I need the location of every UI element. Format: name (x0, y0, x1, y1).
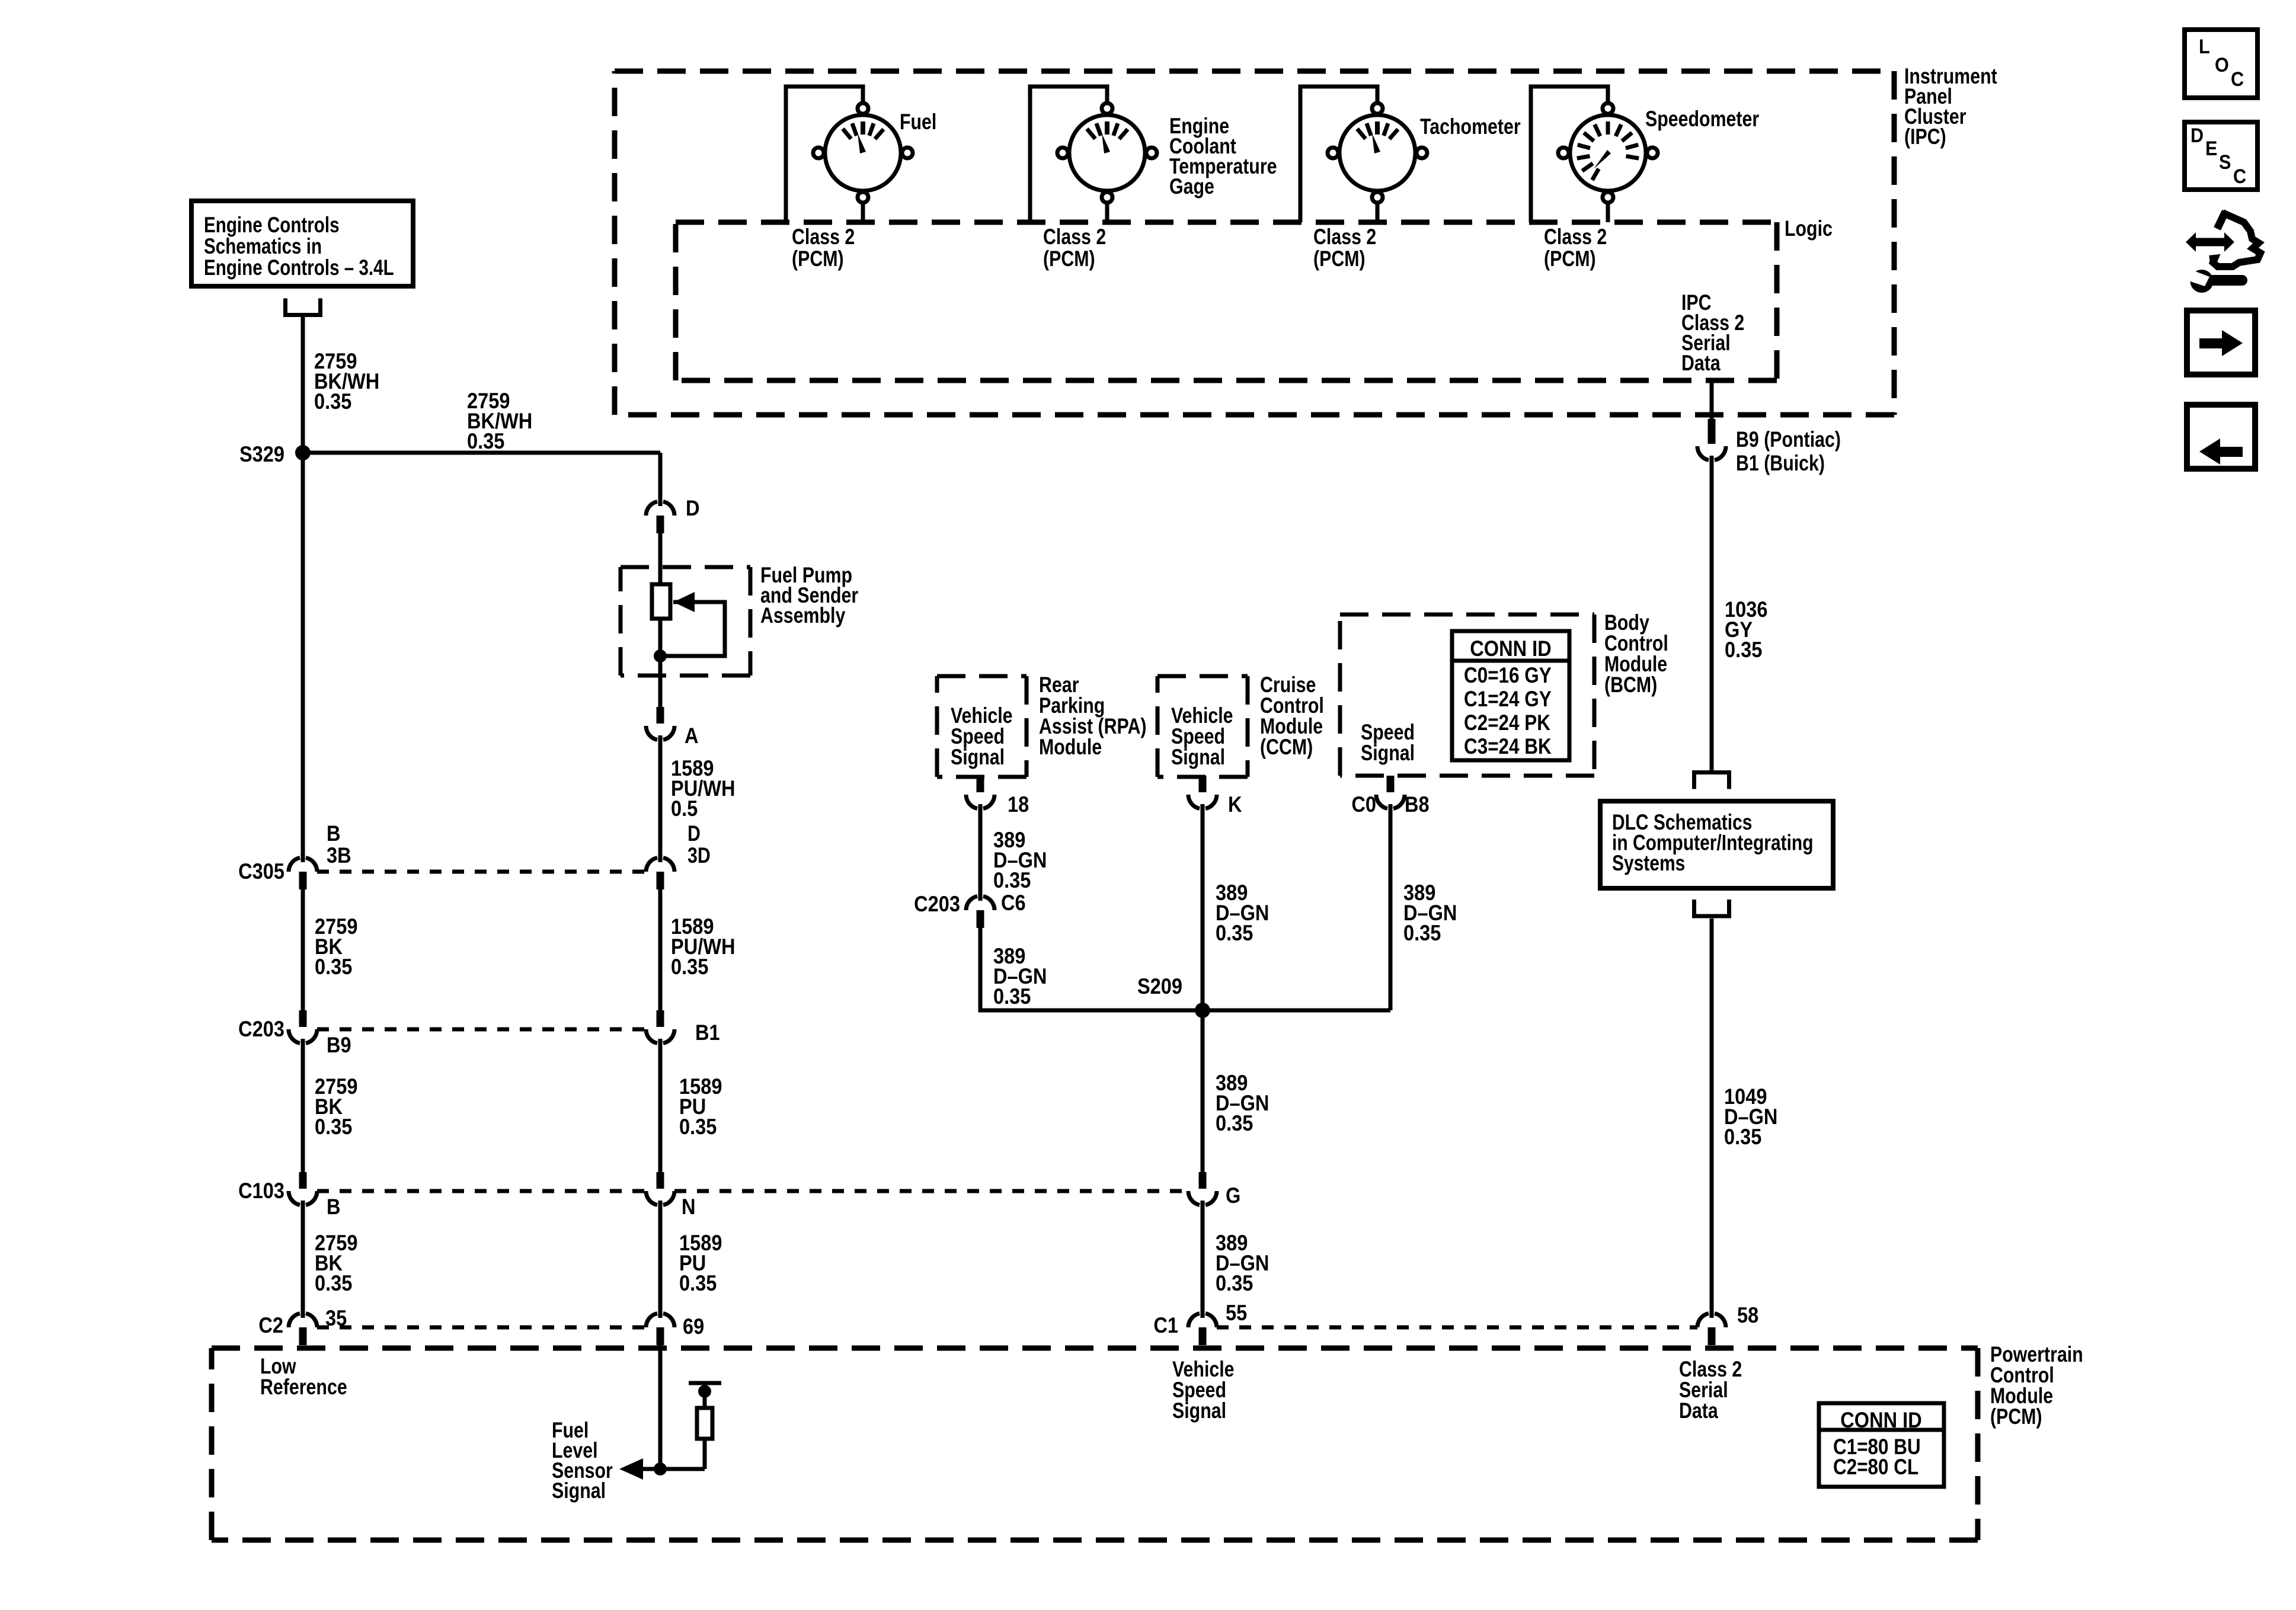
wire D to fuel sender resistor (658, 533, 663, 584)
svg-text:Class 2: Class 2 (792, 225, 855, 249)
wire C103 row line (317, 1189, 646, 1193)
PCM CONN ID table box (1819, 1403, 1944, 1487)
label Class 2 (PCM) (1313, 225, 1376, 271)
svg-text:C1: C1 (1153, 1313, 1178, 1337)
icon back arrow (2199, 438, 2243, 465)
svg-text:Engine Controls: Engine Controls (204, 213, 340, 238)
svg-text:C0: C0 (1351, 792, 1376, 817)
label Class 2 (PCM) (1043, 225, 1106, 271)
fuel pump and sender assembly dashed box (621, 567, 750, 676)
label pin B1 (695, 1020, 720, 1045)
off-page bracket above DLC box (1692, 773, 1731, 789)
svg-text:69: 69 (683, 1314, 704, 1339)
svg-text:B8: B8 (1405, 792, 1430, 817)
svg-text:3B: 3B (327, 843, 351, 868)
svg-text:C2=80 CL: C2=80 CL (1833, 1455, 1918, 1480)
icon forward arrow (2199, 330, 2243, 356)
wire junction to connector A (658, 656, 663, 707)
svg-text:Tachometer: Tachometer (1420, 114, 1521, 139)
wire PCM row line 35-69 (317, 1326, 646, 1330)
wire C103 row line (to G) (674, 1189, 1188, 1193)
svg-text:0.35: 0.35 (1725, 638, 1762, 662)
svg-text:C305: C305 (238, 859, 284, 884)
BCM CONN ID table box (1452, 631, 1569, 760)
wire engine coolant temperature gauge bottom to logic (1105, 204, 1109, 222)
svg-text:A: A (685, 724, 699, 748)
icon forward arrow box (2187, 311, 2255, 375)
label pin 69 (683, 1314, 704, 1339)
BCM CONN ID divider (1452, 659, 1569, 663)
svg-text:(PCM): (PCM) (792, 247, 844, 271)
connector PCM C2 pin 35 (289, 1312, 317, 1345)
wire fuel gauge bottom to logic (861, 204, 865, 222)
label Tachometer (1420, 114, 1521, 139)
svg-text:C2=24 PK: C2=24 PK (1464, 711, 1550, 735)
connector C203 pin C6 (966, 895, 994, 928)
svg-text:(IPC): (IPC) (1904, 124, 1946, 149)
off-page bracket below engine controls box (283, 299, 322, 315)
label pin A (685, 724, 699, 748)
connector A (fuel pump) (646, 707, 674, 741)
label S329 (239, 442, 284, 466)
connector C103 pin N (646, 1172, 674, 1206)
label Fuel Level Sensor Signal (552, 1418, 613, 1503)
label Vehicle Speed Signal (PCM) (1172, 1357, 1235, 1423)
fuel level sensor signal arrowhead (619, 1458, 643, 1480)
wire tachometer gauge top feed (1300, 87, 1377, 222)
svg-text:0.35: 0.35 (1216, 921, 1253, 945)
svg-text:C: C (2233, 165, 2246, 188)
connector C305 pin B row line (317, 870, 646, 874)
label pin B / 3B (327, 821, 351, 868)
label pin 58 (1737, 1303, 1758, 1327)
label Fuel Pump and Sender Assembly (760, 563, 858, 628)
label C203 (238, 1017, 284, 1041)
wire IPC logic to B9 (1710, 380, 1714, 421)
svg-text:N: N (682, 1195, 696, 1219)
icon diagnostic harness outline (2209, 212, 2260, 267)
svg-text:Signal: Signal (552, 1478, 606, 1503)
label Logic (1785, 216, 1833, 241)
svg-text:Schematics in: Schematics in (204, 235, 322, 259)
label IPC Class 2 Serial Data (1681, 290, 1744, 376)
svg-text:0.35: 0.35 (993, 868, 1031, 892)
label Rear Parking Assist (RPA) Module (1039, 673, 1146, 760)
label C0 (1351, 792, 1376, 817)
svg-text:B9 (Pontiac): B9 (Pontiac) (1736, 427, 1841, 452)
label Speedometer (1645, 107, 1759, 132)
label pin B (C103) (327, 1195, 341, 1219)
svg-text:B1 (Buick): B1 (Buick) (1736, 451, 1825, 476)
svg-text:D: D (2191, 124, 2204, 147)
svg-text:0.35: 0.35 (679, 1115, 717, 1139)
label BCM connector ids (1464, 664, 1552, 759)
svg-text:Reference: Reference (260, 1375, 347, 1400)
label Powertrain Control Module (PCM) (1990, 1342, 2083, 1429)
label wire 389 D-GN 0.35 (G-55) (1216, 1231, 1269, 1295)
node pin69-resistor junction (654, 1462, 667, 1475)
icon DESC letters (2191, 124, 2246, 188)
label wire 1589 PU 0.35 (2) (679, 1231, 722, 1295)
label wire 1589 PU/WH 0.35 (671, 914, 736, 979)
node S329 junction (295, 445, 311, 460)
wire C203 row line (317, 1028, 646, 1032)
icon diagnostic wrench (2187, 269, 2242, 293)
body control module dashed box (1340, 614, 1594, 776)
vehicle speed signal (CCM) dashed box (1157, 676, 1248, 777)
connector IPC pin B9/B1 (1697, 419, 1726, 462)
wire resistor to signal line (703, 1439, 707, 1469)
label pin K (1228, 792, 1242, 817)
svg-text:Class 2: Class 2 (1313, 225, 1376, 249)
svg-text:(CCM): (CCM) (1260, 735, 1313, 760)
label pin 35 (325, 1306, 347, 1330)
wire PCM row line 55-58 (1217, 1326, 1697, 1330)
fuel level sender resistor (potentiometer) (652, 584, 670, 619)
label wire 2759 BK/WH 0.35 (branch) (467, 389, 532, 453)
label C203 (C6) (914, 892, 960, 916)
svg-text:CONN ID: CONN ID (1470, 636, 1551, 661)
svg-text:S209: S209 (1137, 974, 1182, 998)
label C1 (1153, 1313, 1178, 1337)
svg-text:0.35: 0.35 (1216, 1111, 1253, 1135)
svg-text:Signal: Signal (1361, 741, 1415, 766)
label pin B8 (1405, 792, 1430, 817)
label PCM connector ids (1833, 1435, 1921, 1480)
icon back arrow box (2187, 405, 2255, 469)
label Engine Controls Schematics in Engine Controls - 3.4L (204, 213, 394, 280)
label pin D / 3D (687, 821, 711, 868)
wire engine coolant temperature gauge top feed (1030, 87, 1107, 222)
label pin C6 (1001, 891, 1026, 915)
svg-text:Engine Controls – 3.4L: Engine Controls – 3.4L (204, 256, 394, 280)
wire B1 to N (658, 1044, 663, 1172)
svg-text:0.35: 0.35 (1216, 1271, 1253, 1295)
svg-text:0.35: 0.35 (467, 429, 504, 453)
svg-text:L: L (2199, 36, 2210, 58)
svg-text:B: B (327, 1195, 341, 1219)
svg-text:0.35: 0.35 (315, 1271, 352, 1295)
wire resistor to junction (658, 619, 663, 656)
label Fuel (900, 110, 936, 135)
DLC schematics box (1600, 801, 1833, 888)
svg-text:0.35: 0.35 (993, 984, 1031, 1009)
svg-text:S: S (2219, 151, 2231, 174)
svg-text:G: G (1226, 1183, 1240, 1208)
svg-text:Logic: Logic (1785, 216, 1833, 241)
label wire 2759 BK 0.35 (1) (315, 914, 357, 979)
svg-text:18: 18 (1008, 792, 1029, 817)
wire S329 branch down to connector D (658, 453, 663, 501)
svg-text:E: E (2205, 137, 2217, 160)
wire tap to resistor (703, 1383, 707, 1408)
svg-text:Signal: Signal (1171, 745, 1225, 770)
svg-text:Data: Data (1679, 1398, 1719, 1423)
label C2 (258, 1313, 283, 1337)
svg-text:Class 2: Class 2 (1544, 225, 1607, 249)
icon diagnostic double arrow (2186, 232, 2234, 252)
label Engine Coolant Temperature Gage (1169, 114, 1277, 199)
label Body Control Module (BCM) (1604, 610, 1668, 697)
label Instrument Panel Cluster (IPC) (1904, 64, 1997, 149)
svg-text:B9: B9 (327, 1033, 351, 1057)
svg-text:Module: Module (1039, 735, 1102, 760)
label Class 2 (PCM) (1544, 225, 1607, 271)
label wire 2759 BK/WH 0.35 (upper) (314, 349, 379, 414)
svg-text:S329: S329 (239, 442, 284, 466)
connector D (fuel pump) (646, 500, 674, 533)
wire sender wiper arm (660, 602, 725, 656)
wire engine controls to S329 (301, 317, 305, 453)
svg-text:0.35: 0.35 (1403, 921, 1441, 945)
wire speedometer gauge top feed (1531, 87, 1608, 222)
speedometer gauge G4 (1558, 103, 1658, 203)
wire C103 to PCM pin 35 (301, 1205, 305, 1313)
svg-text:0.35: 0.35 (315, 955, 352, 979)
connector C103 pin B (289, 1172, 317, 1206)
resistor fuel level pull-up (697, 1408, 712, 1439)
label pin N (682, 1195, 696, 1219)
svg-text:C6: C6 (1001, 891, 1026, 915)
svg-text:Assembly: Assembly (760, 603, 845, 628)
svg-text:55: 55 (1226, 1301, 1247, 1325)
label CONN ID (BCM) (1470, 636, 1551, 661)
svg-text:Signal: Signal (951, 745, 1005, 770)
wire A to 3D (658, 740, 663, 857)
wire fuel gauge top feed (786, 87, 863, 222)
svg-text:(PCM): (PCM) (1043, 247, 1095, 271)
connector C203 pin B9 (289, 1010, 317, 1045)
wire tachometer gauge bottom to logic (1376, 204, 1380, 222)
icon DESC box (2185, 122, 2257, 190)
connector C103 pin G (1188, 1172, 1217, 1206)
svg-text:CONN ID: CONN ID (1840, 1408, 1921, 1432)
wire C6 down to S209 run (980, 928, 1203, 1010)
connector PCM C2 pin 69 (646, 1312, 674, 1345)
svg-text:Signal: Signal (1172, 1398, 1226, 1423)
connector BCM pin B8 (1376, 776, 1405, 810)
svg-text:0.35: 0.35 (1724, 1125, 1761, 1149)
svg-text:D: D (687, 821, 701, 846)
wire S209 horizontal run (980, 1009, 1390, 1013)
label Class 2 Serial Data (PCM) (1679, 1357, 1742, 1423)
wire C305 to C203 (301, 889, 305, 1010)
svg-text:D: D (686, 496, 700, 520)
label pin 18 (1008, 792, 1029, 817)
svg-text:0.35: 0.35 (314, 389, 351, 414)
wire S209 to G (1201, 1010, 1205, 1172)
svg-text:(PCM): (PCM) (1544, 247, 1596, 271)
tachometer gauge G3 (1328, 103, 1427, 203)
svg-text:Fuel: Fuel (900, 110, 936, 135)
label C305 (238, 859, 284, 884)
label wire 389 D-GN 0.35 (K) (1216, 881, 1269, 945)
IPC logic dashed box (676, 222, 1777, 380)
label wire 389 D-GN 0.35 (RPA lower) (993, 944, 1047, 1009)
svg-text:0.35: 0.35 (315, 1115, 352, 1139)
connector CCM pin K (1188, 776, 1217, 810)
connector PCM pin 58 (1697, 1312, 1726, 1345)
wire B9 to DLC bracket (1710, 460, 1714, 770)
fuel gauge G1 (813, 103, 913, 203)
label wire 389 D-GN 0.35 (B8) (1403, 881, 1457, 945)
svg-text:C2: C2 (258, 1313, 283, 1337)
label CONN ID (PCM) (1840, 1408, 1921, 1432)
connector C305 pin 3D (right) (646, 856, 674, 889)
svg-text:Data: Data (1681, 351, 1721, 376)
label wire 1049 D-GN 0.35 (1724, 1084, 1777, 1149)
label wire 2759 BK 0.35 (2) (315, 1074, 357, 1139)
svg-text:C203: C203 (914, 892, 960, 916)
label pin G (1226, 1183, 1240, 1208)
svg-text:C: C (2231, 68, 2244, 91)
label Low Reference (260, 1354, 347, 1400)
wire fuel level sensor signal (628, 1467, 705, 1471)
label wire 389 D-GN 0.35 (RPA upper) (993, 828, 1047, 892)
icon LOC box (2185, 30, 2257, 98)
connector RPA pin 18 (966, 776, 994, 810)
powertrain control module dashed box (212, 1348, 1978, 1540)
label wire 1589 PU/WH 0.5 (671, 756, 736, 821)
label pin B9 (327, 1033, 351, 1057)
label Speed Signal (BCM) (1361, 720, 1415, 766)
svg-text:B: B (327, 821, 341, 846)
label Vehicle Speed Signal (CCM) (1171, 703, 1233, 770)
svg-text:(PCM): (PCM) (1990, 1404, 2042, 1429)
svg-text:0.35: 0.35 (671, 955, 708, 979)
svg-text:(PCM): (PCM) (1313, 247, 1366, 271)
wire C203 to C103 (301, 1044, 305, 1172)
wire B8 to S209 (1389, 809, 1393, 1010)
wire N to PCM pin 69 (658, 1205, 663, 1313)
off-page bracket below DLC box (1692, 900, 1731, 916)
vehicle speed signal (RPA) dashed box (937, 676, 1027, 777)
wire S329 down to C305 (301, 453, 305, 857)
node S209 junction (1195, 1003, 1210, 1018)
wire 18 to C6 (978, 809, 983, 896)
label wire 1589 PU 0.35 (1) (679, 1074, 722, 1139)
label pin 55 (1226, 1301, 1247, 1325)
wire S329 horizontal run (303, 451, 660, 455)
wire 3D to B1 (658, 889, 663, 1010)
svg-text:C0=16 GY: C0=16 GY (1464, 664, 1552, 688)
svg-text:O: O (2215, 54, 2229, 76)
label wire 2759 BK 0.35 (3) (315, 1231, 357, 1295)
wire pin 69 into PCM (658, 1345, 663, 1469)
label C103 (238, 1179, 284, 1203)
instrument panel cluster (IPC) module dashed box (615, 71, 1894, 415)
wire K to S209 (1201, 809, 1205, 1010)
sender wiper arrowhead (673, 592, 695, 612)
wire DLC to PCM pin 58 (1710, 918, 1714, 1313)
svg-text:Gage: Gage (1169, 174, 1214, 199)
svg-text:0.35: 0.35 (679, 1271, 717, 1295)
label wire 1036 GY 0.35 (1725, 597, 1767, 662)
icon LOC letters (2199, 36, 2244, 91)
PCM CONN ID divider (1819, 1428, 1944, 1432)
svg-text:0.5: 0.5 (671, 796, 698, 821)
svg-text:Speedometer: Speedometer (1645, 107, 1759, 132)
svg-text:K: K (1228, 792, 1242, 817)
engine controls schematics box (191, 201, 413, 286)
wire speedometer gauge bottom to logic (1606, 204, 1610, 222)
svg-text:58: 58 (1737, 1303, 1758, 1327)
svg-text:C1=24 GY: C1=24 GY (1464, 687, 1552, 712)
wire G to PCM pin 55 (1201, 1205, 1205, 1313)
label DLC Schematics in Computer/Integrating Systems (1612, 811, 1814, 876)
svg-text:C3=24 BK: C3=24 BK (1464, 735, 1552, 759)
label B9 (Pontiac) B1 (Buick) (1736, 427, 1841, 476)
connector C305 pin B (left) (289, 856, 317, 889)
svg-text:B1: B1 (695, 1020, 720, 1045)
connector PCM C1 pin 55 (1188, 1312, 1217, 1345)
wire fuel level sensor branch top bar (689, 1381, 721, 1385)
svg-text:Class 2: Class 2 (1043, 225, 1106, 249)
svg-text:C203: C203 (238, 1017, 284, 1041)
label Class 2 (PCM) (792, 225, 855, 271)
engine coolant temperature gauge G2 (1057, 103, 1157, 203)
svg-text:Systems: Systems (1612, 852, 1685, 876)
label Vehicle Speed Signal (RPA) (951, 703, 1013, 770)
svg-text:(BCM): (BCM) (1604, 673, 1657, 697)
label S209 (1137, 974, 1182, 998)
connector C203 pin B1 (646, 1010, 674, 1045)
svg-text:C103: C103 (238, 1179, 284, 1203)
label wire 389 D-GN 0.35 (S209-G) (1216, 1071, 1269, 1135)
node sender wiper junction (654, 649, 667, 662)
node fuel level branch tap (698, 1385, 711, 1398)
label pin D (fuel pump) (686, 496, 700, 520)
svg-text:3D: 3D (687, 843, 711, 868)
label Cruise Control Module (CCM) (1260, 673, 1324, 760)
